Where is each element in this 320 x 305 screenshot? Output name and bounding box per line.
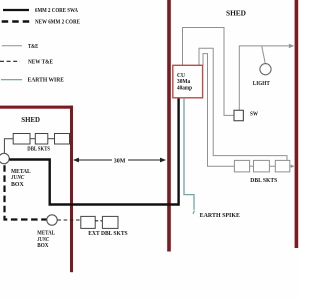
svg-text:6MM 2 CORE SWA: 6MM 2 CORE SWA — [35, 8, 79, 14]
ext dbl socket box 1 — [81, 216, 95, 228]
CU consumer unit box — [173, 65, 203, 98]
switch box SW — [234, 110, 243, 120]
svg-text:METAL: METAL — [37, 231, 55, 237]
svg-text:DBL SKTS: DBL SKTS — [250, 178, 278, 184]
legend line: 6MM 2 CORE SWA — [3, 8, 79, 14]
link wire — [250, 165, 254, 167]
svg-text:40amp: 40amp — [177, 86, 193, 92]
svg-text:NEW T&E: NEW T&E — [28, 60, 53, 66]
wire: drop to light — [262, 46, 266, 64]
svg-text:SHED: SHED — [21, 115, 40, 124]
link wire — [48, 138, 55, 140]
link wire — [30, 138, 35, 140]
svg-text:DBL SKTS: DBL SKTS — [27, 146, 50, 152]
svg-text:SHED: SHED — [226, 9, 247, 18]
legend line: NEW T&E — [0, 60, 53, 66]
svg-text:METAL: METAL — [11, 169, 31, 175]
metal junction box 1 (circle) — [0, 153, 9, 163]
wall: left shed top — [0, 106, 73, 109]
svg-text:EARTH SPIKE: EARTH SPIKE — [200, 213, 240, 219]
svg-text:EXT DBL SKTS: EXT DBL SKTS — [88, 231, 128, 237]
dbl socket box 2 (left shed) — [35, 134, 48, 145]
legend line: EARTH WIRE — [1, 78, 64, 84]
new 6mm 2 core dashed cable: junc box1 to junc box2 — [5, 165, 47, 219]
svg-text:CU: CU — [177, 73, 186, 79]
svg-text:T&E: T&E — [28, 44, 38, 50]
earth wire from CU to earth spike — [184, 98, 194, 210]
dbl socket box 3 (right shed) — [275, 160, 290, 172]
T&E wire: inner loop CU to socket row — [203, 54, 234, 167]
svg-text:EARTH WIRE: EARTH WIRE — [28, 78, 65, 84]
wire: switch up and across to wall — [239, 46, 288, 111]
dimension arrow NM between walls — [73, 158, 166, 165]
svg-text:SW: SW — [250, 111, 258, 117]
metal junction box 2 (circle) — [47, 215, 57, 225]
light (circle) — [260, 64, 271, 75]
dashed link — [95, 220, 102, 222]
wire from metal junc box to dbl skts (left shed) — [4, 139, 13, 154]
svg-text:30M: 30M — [114, 158, 126, 164]
svg-text:BOX: BOX — [37, 243, 49, 249]
svg-text:NEW 6MM 2 CORE: NEW 6MM 2 CORE — [35, 20, 80, 26]
wall: left shed right side — [70, 106, 73, 273]
wall: middle — [167, 0, 171, 252]
link wire — [269, 165, 275, 167]
dbl socket box 3 (left shed) — [55, 134, 70, 145]
svg-text:JUNC: JUNC — [10, 175, 25, 181]
arrowhead at wall — [289, 44, 295, 48]
T&E wire: outer loop CU to switch — [183, 28, 234, 116]
dbl socket box 1 (right shed) — [234, 160, 249, 172]
earth spike arrow tip — [193, 211, 194, 215]
legend line: NEW 6MM 2 CORE — [2, 20, 80, 26]
small arrow at wall — [291, 165, 295, 168]
stub wire to wall — [290, 165, 294, 167]
ext dbl socket box 2 — [102, 216, 118, 228]
dbl socket box 2 (right shed) — [254, 160, 270, 172]
svg-text:30Ma: 30Ma — [177, 79, 190, 85]
svg-text:BOX: BOX — [11, 182, 24, 188]
svg-text:LIGHT: LIGHT — [253, 81, 270, 87]
T&E wire: middle loop CU to far socket — [199, 48, 287, 160]
wall: right — [295, 0, 299, 248]
legend line: T&E — [2, 44, 39, 50]
new T&E dashed wire to ext sockets — [57, 219, 80, 221]
svg-text:JUNC: JUNC — [37, 237, 50, 243]
SWA cable: junc box 1 to CU — [9, 98, 178, 205]
dbl socket box 1 (left shed) — [13, 134, 30, 145]
